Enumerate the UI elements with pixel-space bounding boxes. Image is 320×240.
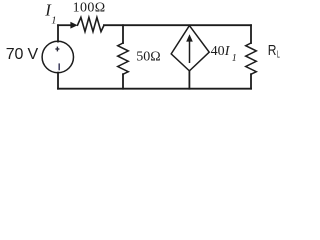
svg-text:L: L (277, 50, 280, 61)
wire RL bottom lead (250, 74, 252, 89)
wire top rail right of 100 ohm resistor (104, 24, 251, 26)
current arrow I1 head on top wire (70, 22, 77, 29)
svg-text:100Ω: 100Ω (73, 1, 106, 16)
svg-text:70 V: 70 V (6, 46, 39, 63)
wire top rail left segment (arrow shaft) (58, 24, 72, 26)
resistor RL zigzag (246, 43, 257, 74)
wire left branch top (source to top rail) (57, 25, 59, 41)
svg-text:1: 1 (232, 53, 237, 64)
svg-text:R: R (268, 42, 277, 59)
label 40I1 dependent source value (211, 44, 237, 64)
resistor R2 50ohm zigzag (118, 43, 129, 74)
label I1 current (44, 1, 56, 27)
wire dependent source bottom lead (188, 71, 190, 89)
dependent current source U1 diamond (171, 26, 209, 71)
svg-text:I: I (224, 44, 231, 59)
wire RL top lead (250, 25, 252, 43)
voltage source minus mark (vertical dash) (58, 63, 60, 70)
wire 50 ohm top lead (122, 25, 124, 43)
resistor R1 100ohm zigzag (78, 17, 105, 31)
svg-text:50Ω: 50Ω (136, 50, 160, 65)
voltage source V1 circle (42, 41, 73, 72)
label RL load resistor (268, 42, 280, 61)
wire 50 ohm bottom lead (122, 74, 124, 89)
wire left branch bottom (source to bottom rail) (57, 73, 59, 89)
wire bottom rail (58, 88, 251, 90)
dependent source arrow (points up) (186, 34, 193, 63)
voltage source plus sign (55, 47, 59, 52)
svg-text:1: 1 (51, 15, 56, 26)
svg-text:40: 40 (211, 44, 225, 59)
